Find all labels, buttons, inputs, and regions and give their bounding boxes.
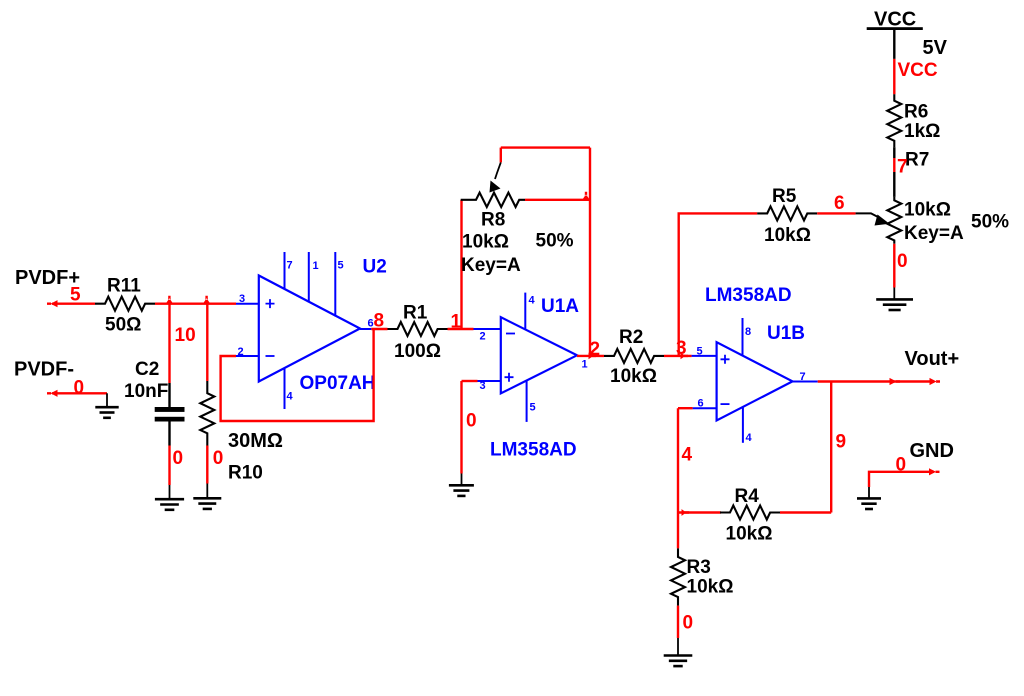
pin arrow PVDF+ [47,300,58,307]
wire U2 out to R1 [371,328,387,330]
svg-text:10nF: 10nF [124,381,168,402]
svg-text:10kΩ: 10kΩ [687,576,734,597]
svg-text:6: 6 [834,193,845,214]
svg-text:R5: R5 [772,186,797,207]
wire R10 to ground [206,446,208,484]
svg-text:0: 0 [74,377,85,398]
ground stem R10 [206,484,208,499]
ground below GND net [857,498,881,509]
capacitor C2 plates [155,407,185,412]
VCC power symbol bar [867,27,923,30]
U2 pin3 +in stub [236,303,259,305]
resistor R2 [604,349,664,363]
wire R4 to net9 [780,511,831,513]
mid arrow Vout wire [890,378,901,385]
junction net2 at U1A output [589,353,597,360]
svg-text:R11: R11 [107,276,141,297]
wire R8 left to net1 [460,200,462,329]
op-amp U1A triangle [501,317,577,393]
svg-text:0: 0 [683,613,694,634]
svg-text:50Ω: 50Ω [105,315,141,336]
U1B pin6 -in stub [693,407,717,409]
U1A - symbol [506,333,515,335]
resistor R3 [671,548,685,605]
ground stem PVDF- [106,393,108,407]
U1A pin2 -in stub [474,328,501,330]
wire U1A +in to ground [462,380,478,382]
svg-text:50%: 50% [536,230,574,251]
U2 pin2 -in stub [236,355,259,357]
wire node10 down to C2 [168,304,170,383]
svg-text:1: 1 [313,260,319,272]
U1B + symbol [721,355,730,364]
svg-text:OP07AH: OP07AH [300,373,376,394]
svg-text:PVDF-: PVDF- [14,358,74,380]
svg-text:4: 4 [746,432,753,444]
svg-text:R7: R7 [905,150,929,171]
pin arrow PVDF- [47,390,58,397]
wire GND net [869,472,934,487]
wire U2 feedback output to -in [221,329,374,421]
wire R1 to U1A -in (net 1) [448,328,474,330]
C2 top lead [168,383,170,408]
U1B pin7 output stub [793,381,818,383]
svg-text:1: 1 [451,312,462,333]
wire net VCC [893,59,895,94]
svg-text:6: 6 [698,398,704,410]
wire PVDF- to ground [52,392,107,394]
svg-text:10: 10 [175,325,196,346]
svg-text:1kΩ: 1kΩ [904,121,940,142]
wire net5 to R11 [52,303,95,305]
svg-text:10kΩ: 10kΩ [726,524,773,545]
svg-text:10kΩ: 10kΩ [904,199,951,220]
svg-text:2: 2 [480,331,486,343]
svg-text:5V: 5V [923,37,948,59]
wire VCC symbol down [893,30,895,59]
R8 wiper arrow [500,148,502,163]
U1A pin3 +in stub [478,380,501,382]
wire U1B out to Vout+ [818,380,934,382]
svg-text:R1: R1 [403,302,428,323]
resistor R4 [720,506,780,520]
junction net3 [681,353,689,360]
resistor R10 [200,381,214,446]
U2 top pins 7,1,5 [284,252,286,290]
svg-text:R6: R6 [904,101,928,122]
pin arrow Vout+ [930,378,941,385]
wire R11 to U2 +in (net 10) [155,303,236,305]
svg-text:U1B: U1B [767,323,805,344]
svg-text:50%: 50% [971,212,1009,233]
svg-text:9: 9 [836,432,847,453]
U2 - symbol [266,355,275,357]
op-amp U2 triangle [259,276,360,382]
svg-text:LM358AD: LM358AD [705,285,792,306]
resistor R1 [388,322,448,336]
wire R7 to ground [893,244,895,288]
U1A pin4 top power pin [524,293,526,330]
svg-text:5: 5 [338,260,344,272]
svg-text:Key=A: Key=A [904,223,964,244]
wire net7 red [893,158,895,172]
pin arrow GND [929,468,940,475]
ground below U1A [449,485,474,496]
svg-text:2: 2 [590,339,601,360]
junction node10 at C2 [166,296,173,304]
svg-text:VCC: VCC [898,60,938,81]
resistor R5 [757,206,817,220]
ground below C2 [155,499,184,510]
potentiometer R8 [461,193,525,207]
svg-text:2: 2 [238,346,244,358]
resistor R6 [887,94,901,147]
R7 wiper arrow [856,213,878,217]
wire net3 up-left to R5 [679,213,758,356]
wire U1B -in to net4 [678,407,693,409]
U2 pin4 bottom pin [284,368,286,409]
ground below R3 [664,656,693,667]
ground below PVDF- [95,407,118,418]
ground stem C2 [169,485,171,499]
wire net9 vertical [830,382,832,513]
junction node10 at R10 [203,296,210,304]
wire U1A out [577,355,604,357]
wire net4 to R4 [678,511,721,513]
wire R3 to ground [677,606,679,638]
svg-text:U2: U2 [363,256,387,277]
ground stem U1A [461,474,463,486]
U1A + symbol [505,373,514,382]
svg-text:8: 8 [745,326,751,338]
svg-text:Vout+: Vout+ [905,348,960,370]
svg-text:R8: R8 [481,210,505,231]
ground stem R3 [677,638,679,655]
wire C2 to ground (net 0) [168,446,170,486]
wire R6 to R7 black upper [893,147,895,158]
svg-text:10kΩ: 10kΩ [462,232,509,253]
svg-text:4: 4 [287,391,294,403]
U1B pin8 top power pin [742,318,744,356]
wire R2 to U1B +in (net 3) [664,355,692,357]
svg-text:30MΩ: 30MΩ [228,430,283,452]
ground below R10 [193,498,221,509]
junction R8 right terminal [583,192,590,200]
svg-text:R4: R4 [735,486,760,507]
wire R8 wiper top to net2 [501,146,590,148]
svg-text:1: 1 [582,359,588,371]
svg-text:10kΩ: 10kΩ [764,225,811,246]
wire net4 vertical [677,408,679,548]
wire R5 to R7 wiper (net 6) [817,212,855,214]
U1A pin5 bottom pin [526,381,528,422]
svg-text:R10: R10 [228,462,263,483]
svg-text:5: 5 [697,346,703,358]
ground stem R7 [893,288,895,300]
svg-text:0: 0 [466,411,477,432]
svg-text:7: 7 [287,260,293,272]
junction net4 at R4 [682,509,690,516]
svg-text:Key=A: Key=A [461,255,521,276]
svg-text:4: 4 [529,295,536,307]
svg-text:R3: R3 [687,557,711,578]
svg-text:0: 0 [897,251,908,272]
U1B - symbol [721,403,730,405]
resistor R11 [95,297,155,311]
C2 bottom lead [168,422,170,446]
wire net2 vertical to U1A output [589,148,591,356]
ground below R7 [876,299,913,310]
svg-text:0: 0 [213,448,224,469]
svg-text:GND: GND [910,440,954,462]
svg-text:5: 5 [530,402,536,414]
ground stem GND net [868,487,870,498]
wire net0 vertical U1A [460,381,462,474]
U1B pin5 +in stub [692,355,717,357]
potentiometer R7 [887,197,901,244]
svg-text:U1A: U1A [541,296,579,317]
svg-text:100Ω: 100Ω [394,341,441,362]
svg-text:10kΩ: 10kΩ [610,366,657,387]
svg-text:3: 3 [480,380,486,392]
wire R8 right to net2 vertical [525,199,590,201]
svg-text:C2: C2 [135,359,159,380]
svg-text:LM358AD: LM358AD [490,440,577,461]
svg-text:5: 5 [70,284,81,305]
svg-text:7: 7 [800,371,806,383]
U2 + symbol [266,299,275,308]
svg-text:7: 7 [897,157,908,178]
U2 pin6 output stub [360,328,371,330]
svg-text:3: 3 [239,293,245,305]
wire node10 down to R10 [206,304,208,381]
svg-text:R2: R2 [619,327,643,348]
svg-text:0: 0 [173,448,184,469]
U1B pin4 bottom pin [742,407,744,443]
svg-text:4: 4 [682,445,693,466]
op-amp U1B triangle [717,342,793,420]
wire R6 to R7 black lower [893,172,895,197]
